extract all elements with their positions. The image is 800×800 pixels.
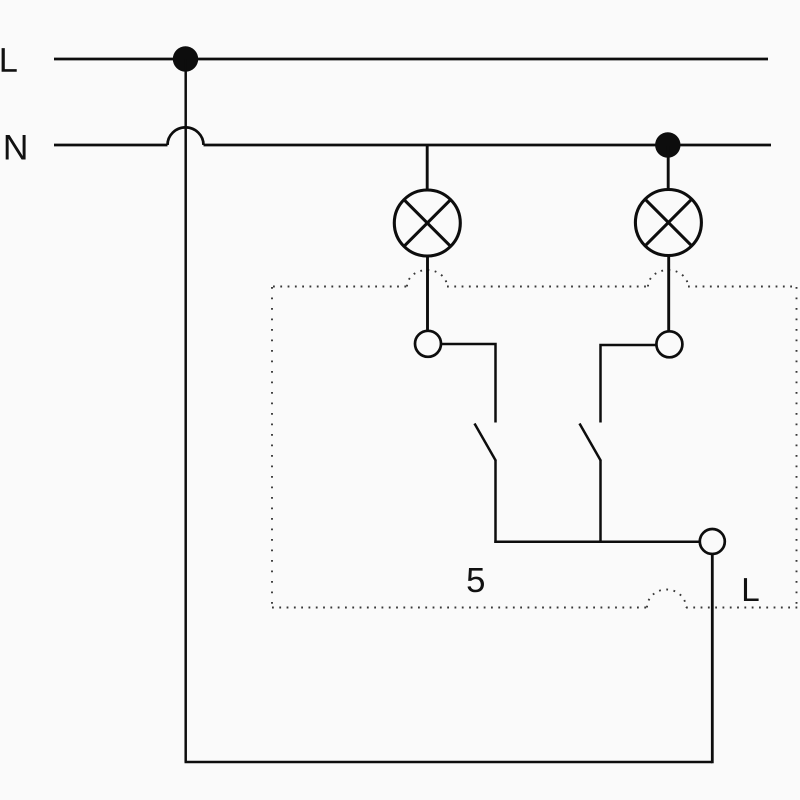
- dotted hop over lamp2 wire: [648, 270, 688, 287]
- wire L bus: [54, 58, 768, 61]
- junction dot on N bus: [655, 132, 680, 157]
- terminal circle for switch 1: [415, 331, 441, 357]
- lamp E2 (circle with X): [635, 190, 701, 256]
- dotted hop on bottom border: [647, 590, 686, 608]
- lamp E1 (circle with X): [394, 190, 460, 256]
- dotted enclosure: bottom border right part: [686, 607, 800, 609]
- wire common run to L terminal: [494, 541, 700, 544]
- label L (line phase, top-left): [2, 48, 17, 72]
- dotted enclosure: right border: [796, 287, 798, 607]
- dotted enclosure: top border left part: [273, 286, 407, 288]
- wire N bus to lamp E2: [667, 146, 670, 191]
- terminal circle common L: [700, 529, 725, 554]
- wire terminal1 to switch S1 fixed contact: [441, 344, 496, 423]
- terminal circle for switch 2: [656, 331, 682, 357]
- wire N bus to lamp E1: [426, 146, 429, 191]
- wire terminal2 to switch S2 fixed contact: [601, 345, 657, 423]
- wire lamp E1 to switch terminal: [426, 256, 429, 332]
- wire hop of N bus over vertical L wire: [168, 127, 204, 145]
- wire switch S2 lower lead: [599, 460, 602, 543]
- label 5 (switch type): [467, 568, 483, 592]
- switch S1 blade: [475, 424, 496, 461]
- wire vertical from L junction down left side: [184, 59, 187, 762]
- wire N bus (right segment): [204, 144, 772, 147]
- label L (switched live): [744, 578, 759, 601]
- dotted enclosure: left border: [271, 287, 273, 607]
- switch S2 blade: [580, 424, 601, 461]
- dotted enclosure: bottom border left part: [272, 607, 647, 609]
- wire switch S1 lower lead: [494, 460, 497, 543]
- wire lamp E2 to switch terminal: [667, 255, 670, 332]
- label N (neutral, left): [6, 135, 26, 159]
- junction dot on L bus: [173, 46, 198, 71]
- wire bottom run: [185, 761, 713, 764]
- wire right riser to switch common terminal: [711, 553, 714, 763]
- wire N bus (left segment): [54, 144, 168, 147]
- dotted enclosure: top border middle part: [447, 286, 648, 288]
- dotted hop over lamp1 wire: [407, 270, 447, 287]
- dotted enclosure: top border right part: [688, 286, 797, 288]
